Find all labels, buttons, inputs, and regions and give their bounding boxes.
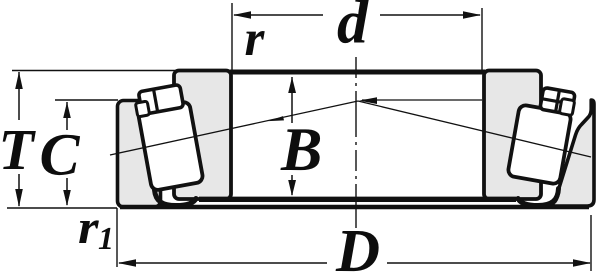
C top arrow <box>63 102 71 118</box>
wire d left extension <box>231 3 233 70</box>
T bottom arrow <box>15 189 23 207</box>
dimension d line left segment <box>234 14 323 16</box>
cage right bottom hook <box>518 189 559 206</box>
cup back face line <box>120 205 589 209</box>
apex arrowhead <box>359 97 377 104</box>
svg-text:T: T <box>0 117 37 182</box>
svg-text:1: 1 <box>98 220 114 256</box>
bore top face <box>230 70 485 75</box>
node axis centerline <box>355 57 357 228</box>
d left arrow <box>233 11 251 19</box>
dimension B line <box>291 77 293 123</box>
svg-text:B: B <box>280 116 322 184</box>
dimension C line <box>66 102 68 130</box>
dimension D line right segment <box>387 262 590 264</box>
cage left lip <box>135 101 149 117</box>
C bottom arrow <box>63 190 71 206</box>
left contact construction line <box>110 101 358 155</box>
svg-text:r: r <box>78 201 100 254</box>
cone back face band <box>199 197 516 202</box>
dimension D line left segment <box>119 262 327 264</box>
svg-text:d: d <box>337 0 369 57</box>
cage right lip <box>559 98 574 115</box>
wire D left extension <box>116 208 118 267</box>
svg-text:D: D <box>335 218 380 275</box>
cage left top band <box>138 84 183 114</box>
svg-text:r: r <box>245 11 266 67</box>
outer ring right (cup) <box>553 100 594 206</box>
wire d right extension <box>481 8 483 70</box>
D left arrow <box>118 259 136 267</box>
inner ring left half (cone) <box>174 71 231 200</box>
wire T top extension line <box>12 70 240 72</box>
apex pointer line <box>362 99 482 101</box>
roller left <box>138 101 204 191</box>
d right arrow <box>463 11 481 19</box>
arrowhead on left contact line <box>269 116 285 121</box>
cage right top band <box>540 87 575 114</box>
label r1 <box>78 201 100 254</box>
svg-text:C: C <box>40 122 81 188</box>
outer ring left (cup) <box>118 101 161 208</box>
B top arrow <box>288 77 296 93</box>
wire C top extension line <box>55 99 118 101</box>
wire D right extension <box>590 215 592 271</box>
D right arrow <box>573 259 591 267</box>
dimension T line <box>18 72 20 120</box>
T top arrow <box>15 72 23 89</box>
dimension d line right segment <box>380 14 480 16</box>
roller right <box>507 104 571 184</box>
inner ring right half (cone) <box>484 71 541 200</box>
cage left bottom hook <box>155 190 197 206</box>
wire bottom reference line <box>7 207 117 209</box>
B bottom arrow <box>288 180 296 196</box>
right contact construction line <box>358 101 591 157</box>
